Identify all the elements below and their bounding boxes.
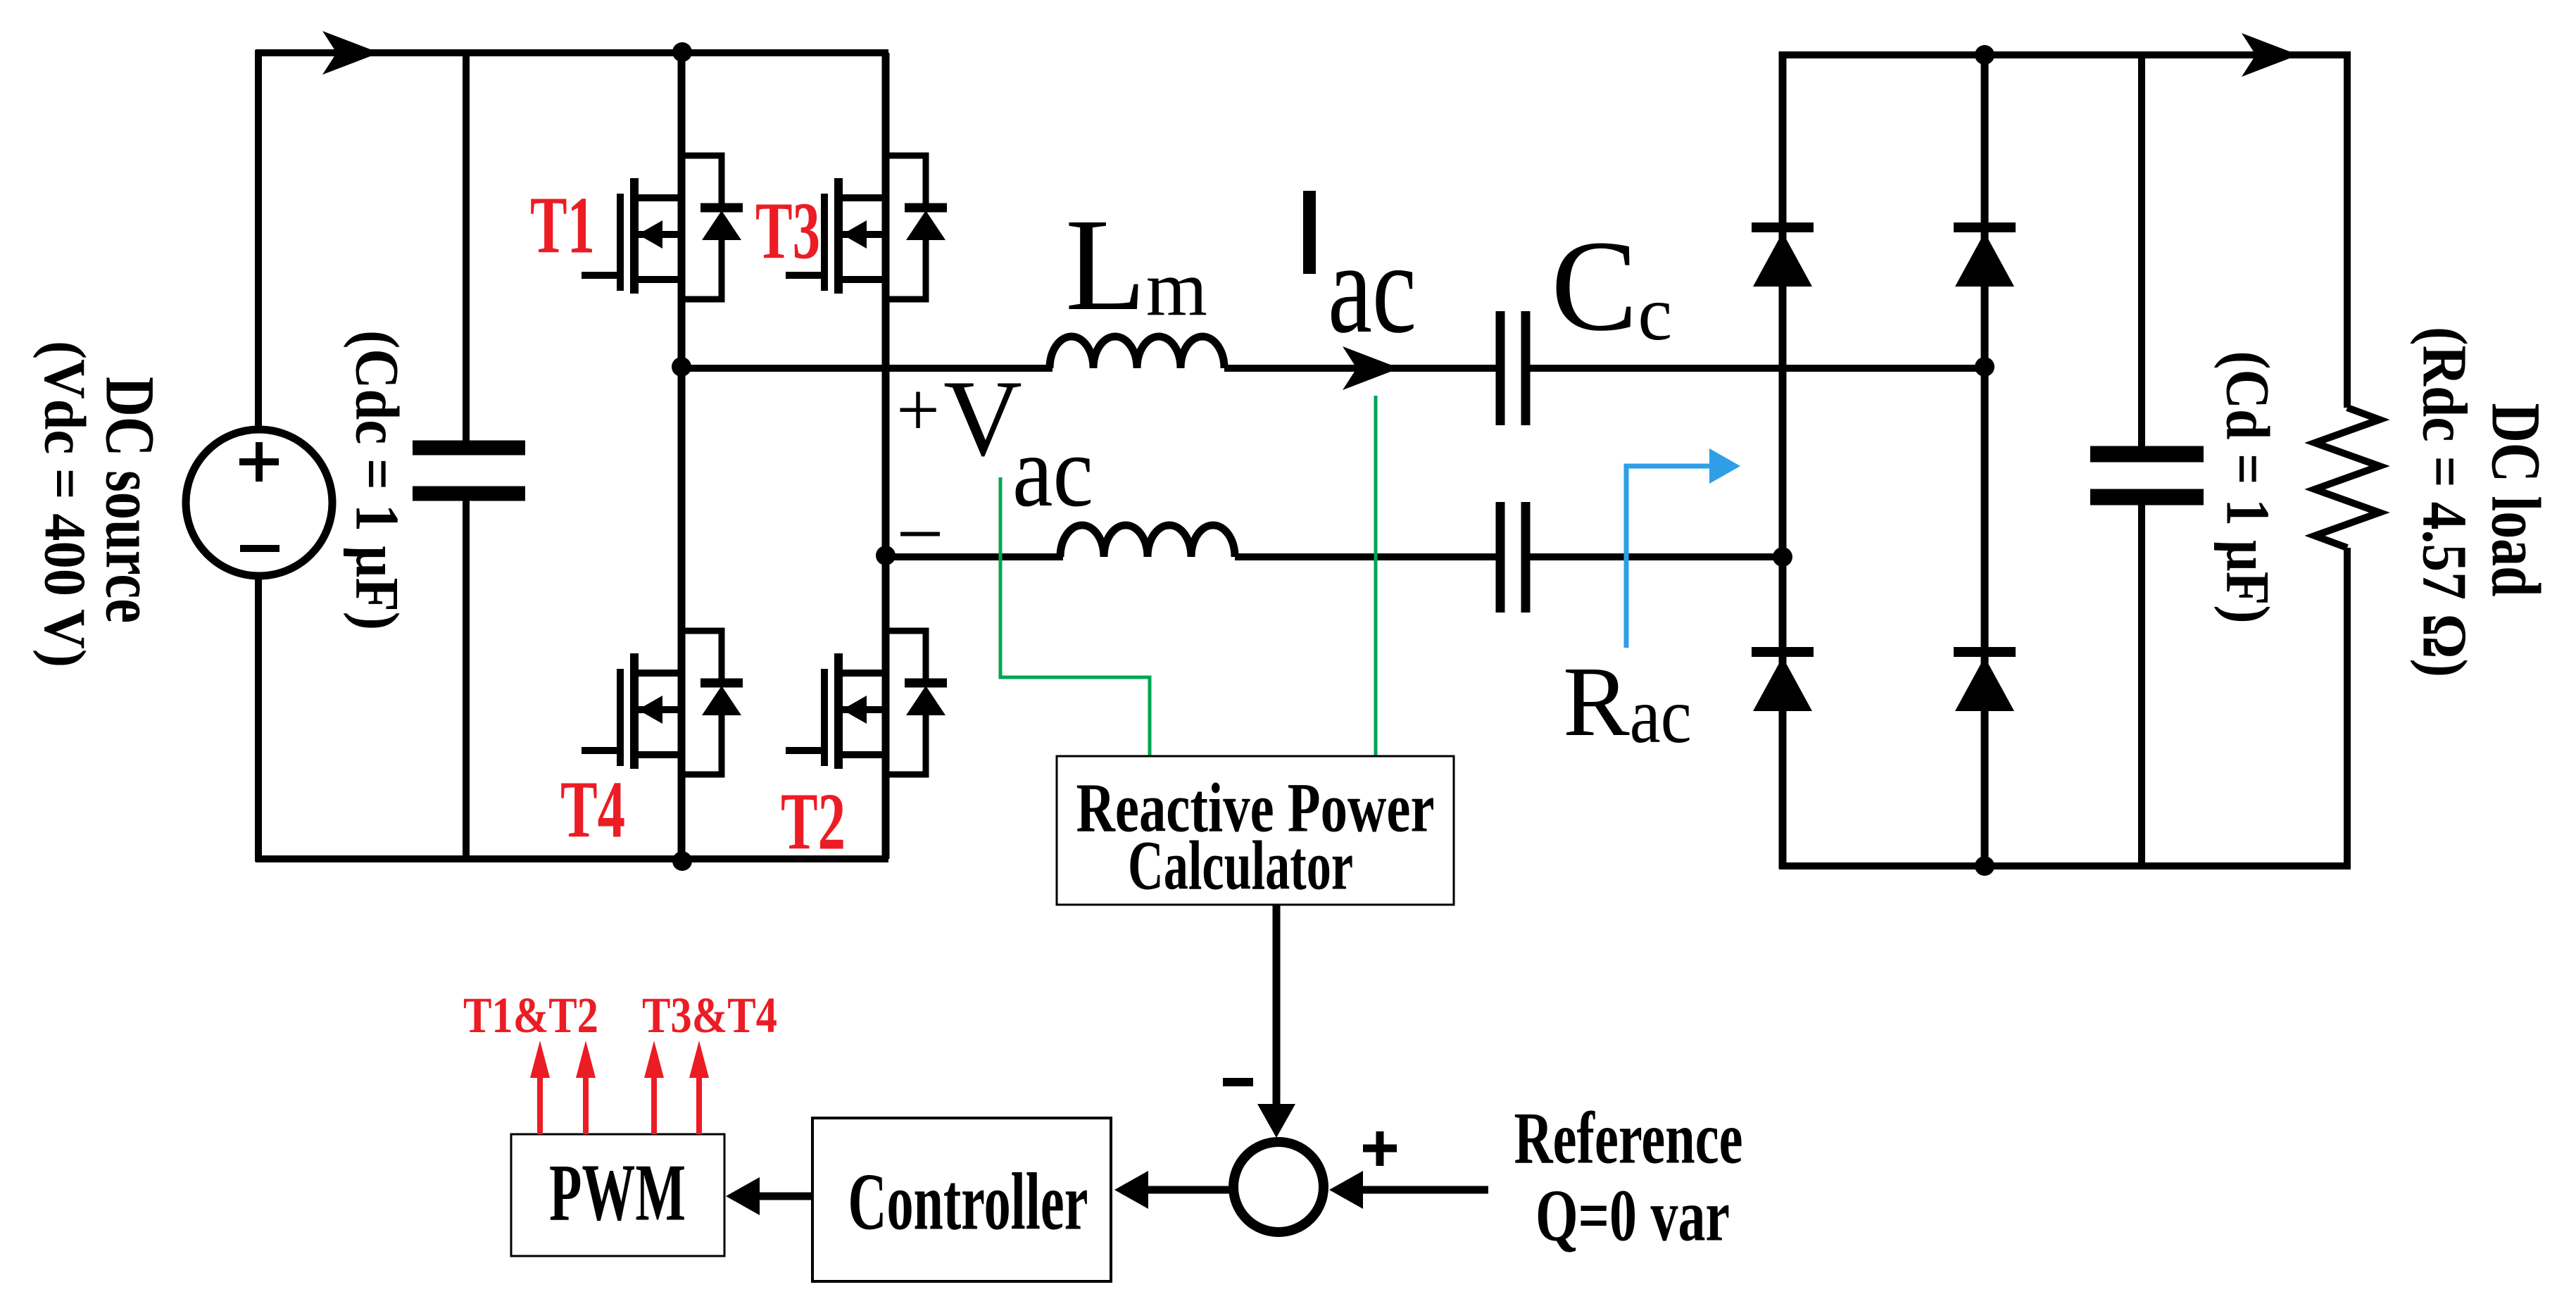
- wire: rectifier bottom rail: [1779, 862, 2351, 869]
- wire: lower AC line from Cc to rectifier: [1530, 553, 1783, 560]
- wire: bottom rail left (DC- bus): [256, 855, 888, 862]
- diode D4 (lower right): [1954, 647, 2016, 657]
- svg-text:DC source: DC source: [92, 377, 170, 623]
- resistor Rdc bottom lead: [2344, 548, 2351, 869]
- svg-text:ac: ac: [1012, 415, 1093, 528]
- svg-text:T2: T2: [781, 777, 846, 867]
- block: PWM: [511, 1134, 724, 1256]
- svg-text:PWM: PWM: [549, 1148, 686, 1238]
- svg-text:T1: T1: [530, 181, 595, 270]
- svg-text:Reference: Reference: [1514, 1097, 1743, 1179]
- probe wire (green): Iac sense to calculator: [1374, 396, 1378, 758]
- svg-text:V: V: [943, 358, 1022, 479]
- inductor Lm (bottom): [1060, 525, 1235, 557]
- svg-text:T3&T4: T3&T4: [642, 987, 777, 1043]
- inductor Lm (top): [1050, 337, 1224, 368]
- summing junction: [1233, 1142, 1324, 1232]
- node: bottom rail / right leg junction: [1975, 856, 1994, 876]
- wire: rectifier top rail: [1779, 51, 2351, 58]
- probe arrow (blue): Rac looking-in direction: [1626, 466, 1719, 648]
- svg-text:+: +: [896, 367, 940, 453]
- svg-text:(Rdc = 4.57 Ω): (Rdc = 4.57 Ω): [2410, 327, 2480, 677]
- arrow: into PWM: [726, 1177, 760, 1215]
- diode D3 (lower left): [1752, 647, 1814, 657]
- node: top rail / right leg junction: [1975, 45, 1994, 65]
- wire: upper AC line from bridge to Lm: [681, 365, 1053, 372]
- capacitor Cdc plates: [413, 448, 525, 494]
- wire: rectifier right leg: [1981, 51, 1989, 869]
- wire: summing junction to controller: [1126, 1186, 1233, 1194]
- transistor T1 (MOSFET with body diode): [582, 156, 743, 299]
- svg-text:T4: T4: [560, 765, 625, 855]
- label: minus sign at summing junction: [1223, 1078, 1253, 1086]
- capacitor Cc lower plates: [1500, 502, 1526, 613]
- node: rectifier right leg upper junction: [1975, 357, 1994, 377]
- svg-text:ac: ac: [1328, 216, 1416, 360]
- capacitor Cc upper plates: [1500, 311, 1526, 425]
- wire: inverter left leg: [678, 53, 686, 859]
- node: bottom rail / left leg junction: [672, 851, 692, 871]
- source V1 plus mark: [239, 442, 279, 482]
- label: Iac: [1303, 191, 1316, 274]
- capacitor Cdc top lead: [463, 53, 470, 441]
- wire: calculator output to summing junction: [1273, 905, 1281, 1119]
- gate drive arrows (red) from PWM: [540, 1070, 699, 1134]
- wire: DC source positive lead: [255, 50, 262, 430]
- svg-text:(Vdc = 400 V): (Vdc = 400 V): [32, 341, 98, 667]
- svg-text:Calculator: Calculator: [1128, 827, 1353, 905]
- svg-text:(Cdc = 1 µF): (Cdc = 1 µF): [343, 330, 411, 630]
- wire: upper AC line from Lm to Cc: [1224, 365, 1496, 372]
- wire: rectifier left leg: [1779, 51, 1787, 869]
- resistor Rdc zigzag: [2315, 408, 2380, 548]
- svg-text:T3: T3: [755, 187, 820, 276]
- wire: lower AC line from bridge to Lm: [886, 553, 1063, 560]
- block: Controller: [812, 1118, 1111, 1281]
- wire: inverter right leg: [882, 53, 890, 859]
- node: top rail / left leg junction: [672, 42, 692, 62]
- block: Reactive Power Calculator: [1057, 756, 1454, 905]
- node: phase B junction (right leg): [876, 546, 896, 565]
- capacitor Cd bottom lead: [2138, 505, 2145, 866]
- svg-text:−: −: [896, 487, 944, 581]
- node: rectifier left leg lower junction: [1773, 547, 1792, 567]
- label: plus sign at summing junction: [1363, 1131, 1397, 1166]
- arrow: input current on top rail: [322, 31, 379, 75]
- diode D1 (upper left): [1752, 222, 1814, 232]
- svg-text:Controller: Controller: [848, 1157, 1088, 1247]
- probe wire (green): Vac sense to calculator: [1000, 477, 1150, 758]
- source V1 minus mark: [240, 545, 279, 552]
- capacitor Cd plates: [2090, 454, 2204, 497]
- transistor T4 (MOSFET with body diode): [582, 631, 743, 774]
- arrow: into controller: [1114, 1171, 1148, 1209]
- wire: top rail left (DC+ bus): [256, 49, 888, 56]
- svg-text:Q=0 var: Q=0 var: [1535, 1174, 1730, 1257]
- arrow: output current on top rail: [2242, 33, 2299, 77]
- transistor T3 (MOSFET with body diode): [786, 156, 947, 299]
- arrow: Iac current arrow: [1343, 346, 1400, 390]
- svg-text:T1&T2: T1&T2: [463, 987, 598, 1043]
- capacitor Cd top lead: [2138, 55, 2145, 446]
- transistor T2 (MOSFET with body diode): [786, 631, 947, 774]
- arrow: reference into summing junction: [1329, 1171, 1363, 1209]
- arrow: into summing junction (minus input): [1257, 1104, 1295, 1138]
- source V1: DC source circle: [186, 429, 332, 576]
- wire: lower AC line from Lm to Cc: [1235, 553, 1496, 560]
- wire: upper AC line from Cc to rectifier: [1530, 365, 1985, 372]
- resistor Rdc top lead: [2344, 52, 2351, 408]
- wire: reference input to summing junction: [1341, 1186, 1488, 1194]
- wire: controller to PWM: [738, 1193, 812, 1200]
- svg-text:(Cd = 1 µF): (Cd = 1 µF): [2213, 351, 2282, 624]
- svg-text:DC load: DC load: [2477, 403, 2556, 597]
- wire: DC source negative lead: [255, 576, 262, 862]
- node: phase A junction (left leg midpoint): [672, 357, 691, 377]
- capacitor Cdc bottom lead: [463, 501, 470, 859]
- diode D2 (upper right): [1954, 222, 2016, 232]
